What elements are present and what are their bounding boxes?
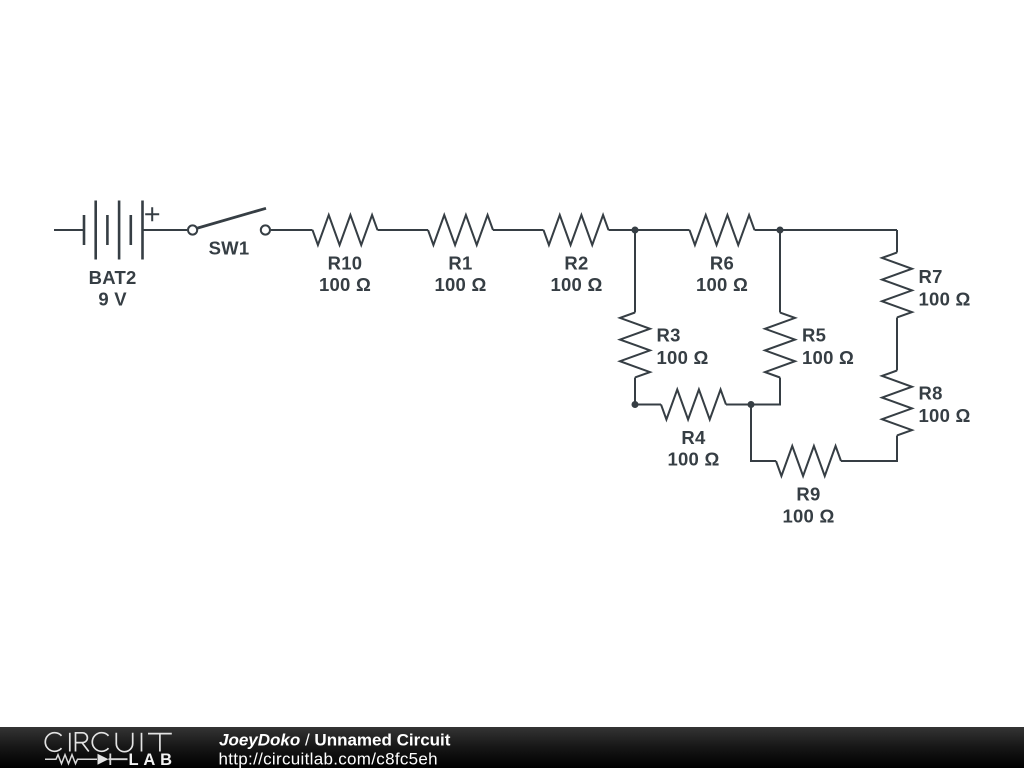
node C junction dot xyxy=(748,401,755,408)
wire battery left lead xyxy=(54,229,84,231)
logo resistor doodle xyxy=(45,755,97,764)
resistor R5 xyxy=(765,313,795,378)
svg-text:JoeyDoko / Unnamed Circuit: JoeyDoko / Unnamed Circuit xyxy=(219,731,451,750)
wire switch to R10 xyxy=(271,229,313,231)
wire R6 to top-right corner through node B xyxy=(755,229,898,231)
svg-text:100 Ω: 100 Ω xyxy=(919,289,971,310)
wire node D to R4 xyxy=(635,404,661,406)
resistor R8 xyxy=(882,371,912,436)
resistor R6 xyxy=(690,215,755,245)
node A junction dot xyxy=(632,227,639,234)
wire R4 to node C xyxy=(726,404,751,406)
svg-text:100 Ω: 100 Ω xyxy=(434,274,486,295)
svg-text:100 Ω: 100 Ω xyxy=(782,506,834,527)
resistor R2 xyxy=(544,215,609,245)
resistor R1 xyxy=(428,215,493,245)
resistor R4 xyxy=(661,390,726,420)
svg-text:R2: R2 xyxy=(564,253,588,274)
footer bar xyxy=(0,727,1024,768)
wire node A down to R3 xyxy=(634,230,636,313)
resistor R10 xyxy=(313,215,378,245)
svg-text:BAT2: BAT2 xyxy=(89,267,137,288)
battery BAT2 xyxy=(84,201,143,260)
svg-text:R7: R7 xyxy=(919,266,943,287)
svg-text:R5: R5 xyxy=(802,325,826,346)
svg-text:R1: R1 xyxy=(448,253,472,274)
svg-text:R6: R6 xyxy=(710,253,734,274)
wire R3 bottom to node D xyxy=(634,378,636,405)
switch SW1 xyxy=(188,208,270,234)
wire R10 to R1 xyxy=(378,229,429,231)
wire node C to R5 bottom lead xyxy=(751,378,780,405)
svg-text:100 Ω: 100 Ω xyxy=(696,274,748,295)
svg-text:100 Ω: 100 Ω xyxy=(919,405,971,426)
svg-text:http://circuitlab.com/c8fc5eh: http://circuitlab.com/c8fc5eh xyxy=(219,750,438,768)
svg-text:SW1: SW1 xyxy=(209,238,250,259)
wire R9 left and up to node C xyxy=(751,405,776,462)
node D junction dot xyxy=(632,401,639,408)
battery plus sign xyxy=(145,207,159,221)
wire R8 down and left to R9 xyxy=(841,436,897,462)
svg-text:100 Ω: 100 Ω xyxy=(667,449,719,470)
wire R7 to R8 xyxy=(896,318,898,371)
svg-text:R4: R4 xyxy=(681,427,706,448)
resistor R9 xyxy=(776,446,841,476)
svg-text:R10: R10 xyxy=(328,253,363,274)
resistor R7 xyxy=(882,253,912,318)
wire R5 top to node B xyxy=(779,230,781,313)
wire corner down to R7 xyxy=(896,230,898,253)
svg-text:R3: R3 xyxy=(657,325,681,346)
logo diode doodle xyxy=(98,754,109,765)
svg-text:R9: R9 xyxy=(796,484,820,505)
resistor R3 xyxy=(620,313,650,378)
svg-text:R8: R8 xyxy=(919,383,943,404)
wire battery to switch xyxy=(143,229,188,231)
svg-text:100 Ω: 100 Ω xyxy=(550,274,602,295)
logo word CIRCUIT xyxy=(45,733,172,752)
svg-text:100 Ω: 100 Ω xyxy=(657,347,709,368)
wire R2 to R6 through node A xyxy=(609,229,690,231)
node B junction dot xyxy=(777,227,784,234)
svg-text:100 Ω: 100 Ω xyxy=(319,274,371,295)
wire R1 to R2 xyxy=(493,229,544,231)
svg-text:9 V: 9 V xyxy=(98,289,127,310)
svg-text:LAB: LAB xyxy=(129,751,177,768)
svg-text:100 Ω: 100 Ω xyxy=(802,347,854,368)
